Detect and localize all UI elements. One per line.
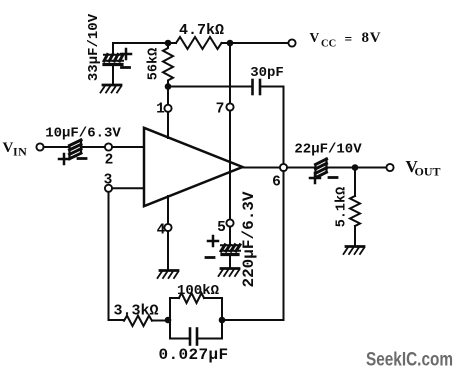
op-amp U1 triangle	[144, 128, 243, 206]
minus sign C22	[329, 176, 337, 179]
wire C22 to junction	[326, 167, 355, 169]
node junction Vcc/pin7	[227, 40, 234, 47]
ground G1 under 33uF	[101, 85, 122, 93]
wire opamp output to node6	[243, 167, 281, 169]
node junction 56k bottom	[165, 83, 172, 90]
wire junction to 5.1k	[354, 168, 356, 197]
pin 7 circle	[226, 103, 233, 110]
label Vin	[3, 140, 28, 159]
wire C10 to pin2	[81, 146, 105, 148]
wire parallel box top right stub	[204, 297, 222, 299]
label Vout	[406, 157, 441, 179]
wire feedback to 30pF	[168, 86, 252, 88]
svg-text:0.027µF: 0.027µF	[158, 346, 228, 364]
wire pin5 to C220	[229, 227, 231, 246]
resistor R 3.3k zigzag	[124, 316, 152, 326]
wire parallel box right edge	[221, 298, 223, 339]
svg-text:6: 6	[272, 175, 281, 191]
resistor R 5.1k zigzag	[350, 196, 360, 226]
capacitor C 22uF plates	[316, 159, 327, 179]
wire pin2 to opamp	[112, 146, 144, 148]
node junction output/5.1k	[352, 164, 359, 171]
wire 3.3k to parallel network	[152, 320, 170, 322]
svg-text:SeekIC.com: SeekIC.com	[366, 350, 453, 371]
wire 30pF right to node 6	[261, 87, 284, 164]
svg-text:56kΩ: 56kΩ	[147, 48, 162, 80]
wire pin1 into opamp	[167, 112, 169, 138]
wire node6 to C22	[287, 167, 315, 169]
svg-text:OUT: OUT	[415, 165, 441, 179]
resistor R 100k zigzag	[179, 293, 204, 303]
pin 2 circle	[105, 143, 112, 150]
wire pin3 down to bottom network	[109, 192, 125, 320]
wire C220 to ground	[229, 255, 231, 267]
resistor R 56k zigzag	[163, 43, 173, 87]
svg-text:10µF/6.3V: 10µF/6.3V	[45, 126, 121, 142]
terminal Vout	[386, 164, 393, 171]
wire pin3 to opamp	[112, 187, 144, 189]
svg-text:4: 4	[157, 223, 166, 239]
wire pin4 from opamp	[167, 196, 169, 224]
capacitor C 30pF plates	[253, 80, 261, 94]
resistor R 4.7k zigzag	[176, 37, 222, 49]
minus sign C10	[78, 157, 86, 160]
svg-text:5: 5	[217, 220, 226, 236]
node junction right of parallel RC	[219, 317, 226, 324]
svg-text:IN: IN	[13, 145, 27, 159]
minus sign C220	[206, 256, 214, 259]
wire pin7 through opamp to pin5	[229, 111, 231, 220]
svg-text:22µF/10V: 22µF/10V	[294, 142, 362, 158]
label Vcc = 8V	[310, 30, 382, 50]
wire 5.1k to ground	[354, 226, 356, 245]
wire pin1 stub top	[167, 87, 169, 105]
minus sign C33	[122, 66, 130, 69]
wire Vcc rail right segment	[222, 42, 289, 44]
wire parallel box bottom left	[170, 338, 189, 340]
pin 3 circle	[105, 185, 112, 192]
wire 33uF bottom lead	[112, 67, 114, 85]
svg-text:33µF/10V: 33µF/10V	[86, 13, 102, 81]
svg-text:8V: 8V	[362, 30, 382, 46]
wire junction to Vout	[355, 167, 386, 169]
ground G3 under C220	[219, 269, 240, 277]
capacitor C 0.027uF plates	[190, 329, 197, 345]
terminal Vin	[36, 143, 43, 150]
svg-text:5.1kΩ: 5.1kΩ	[335, 187, 350, 228]
node junction Vcc/56k	[165, 40, 172, 47]
wire pin4 to ground	[167, 231, 169, 269]
wire parallel box bottom right	[199, 338, 223, 340]
wire parallel box left edge	[169, 298, 171, 339]
svg-text:30pF: 30pF	[250, 65, 284, 81]
svg-text:V: V	[3, 140, 14, 156]
wire parallel box top left stub	[170, 297, 179, 299]
svg-text:1: 1	[156, 102, 165, 118]
svg-text:V: V	[310, 30, 320, 45]
svg-text:100kΩ: 100kΩ	[177, 283, 220, 299]
plus sign C22	[310, 173, 320, 183]
svg-text:=: =	[345, 32, 353, 47]
pin 6 node circle	[280, 164, 287, 171]
capacitor C 220uF plates	[221, 245, 240, 251]
capacitor C 33uF plates	[104, 55, 123, 62]
node junction left of parallel RC	[165, 317, 172, 324]
pin 1 circle	[164, 105, 171, 112]
svg-text:2: 2	[105, 153, 114, 169]
wire pin7 stub top	[229, 43, 231, 103]
svg-text:3.3kΩ: 3.3kΩ	[113, 303, 158, 320]
pin 4 circle	[164, 224, 171, 231]
svg-text:CC: CC	[321, 39, 336, 50]
svg-text:220µF/6.3V: 220µF/6.3V	[240, 191, 258, 287]
plus sign C33	[121, 49, 131, 59]
ground G2 under pin4	[158, 271, 179, 279]
wire Vcc rail left segment	[113, 42, 176, 44]
pin 5 circle	[226, 219, 233, 226]
svg-text:4.7kΩ: 4.7kΩ	[179, 22, 224, 39]
ground G4 under 5.1k	[344, 247, 365, 255]
capacitor C 10uF plates	[70, 140, 82, 159]
wire 33uF top lead	[112, 43, 114, 55]
plus sign C220	[208, 236, 218, 246]
wire Vin to C10	[44, 146, 69, 148]
wire node6 down to bottom network	[222, 171, 284, 320]
terminal Vcc	[288, 39, 295, 46]
svg-text:7: 7	[216, 102, 225, 118]
plus sign C10	[59, 154, 69, 164]
